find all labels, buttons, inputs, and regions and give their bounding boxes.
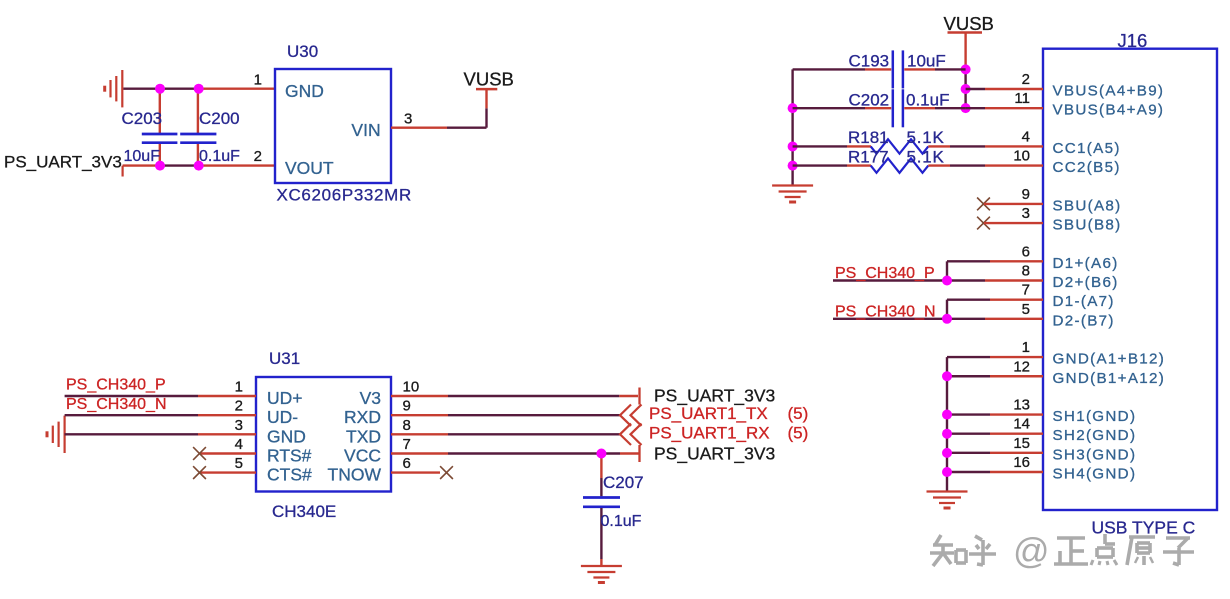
svg-text:U31: U31 [269, 349, 300, 368]
svg-text:PS_CH340_N: PS_CH340_N [835, 303, 936, 320]
svg-text:TXD: TXD [346, 426, 381, 446]
svg-text:RXD: RXD [344, 407, 381, 427]
svg-text:4: 4 [235, 436, 243, 453]
svg-text:PS_CH340_P: PS_CH340_P [66, 377, 166, 394]
svg-text:C202: C202 [849, 91, 890, 110]
svg-text:12: 12 [1013, 358, 1030, 375]
svg-text:SBU(A8): SBU(A8) [1053, 197, 1122, 214]
svg-text:3: 3 [1022, 205, 1030, 222]
svg-text:VCC: VCC [344, 446, 381, 466]
svg-text:(5): (5) [788, 404, 809, 423]
svg-text:16: 16 [1013, 454, 1030, 471]
svg-text:D1-(A7): D1-(A7) [1053, 293, 1115, 310]
svg-text:PS_UART1_RX: PS_UART1_RX [649, 423, 770, 442]
svg-text:0.1uF: 0.1uF [601, 513, 642, 530]
svg-text:C200: C200 [199, 109, 240, 128]
svg-text:CC2(B5): CC2(B5) [1053, 159, 1121, 176]
svg-text:PS_CH340_P: PS_CH340_P [835, 265, 935, 282]
svg-text:1: 1 [1022, 339, 1030, 356]
svg-text:C193: C193 [849, 52, 890, 71]
svg-text:PS_UART_3V3: PS_UART_3V3 [654, 444, 775, 465]
svg-text:VOUT: VOUT [285, 158, 334, 178]
svg-text:2: 2 [254, 148, 262, 165]
svg-text:SH4(GND): SH4(GND) [1053, 466, 1137, 483]
svg-text:9: 9 [403, 398, 411, 415]
svg-text:PS_UART_3V3: PS_UART_3V3 [4, 153, 122, 172]
svg-text:VUSB: VUSB [464, 69, 514, 90]
svg-text:TNOW: TNOW [328, 465, 382, 485]
svg-text:13: 13 [1013, 397, 1030, 414]
svg-text:D1+(A6): D1+(A6) [1053, 255, 1119, 272]
svg-text:U30: U30 [287, 42, 318, 61]
svg-text:5: 5 [1022, 301, 1030, 318]
svg-text:R177: R177 [848, 147, 889, 166]
svg-text:2: 2 [235, 398, 243, 415]
svg-text:10: 10 [403, 379, 420, 396]
svg-text:1: 1 [254, 72, 262, 89]
svg-text:CH340E: CH340E [272, 502, 336, 521]
svg-text:8: 8 [403, 417, 411, 434]
svg-text:CTS#: CTS# [267, 465, 312, 485]
svg-text:3: 3 [235, 417, 243, 434]
svg-text:2: 2 [1022, 71, 1030, 88]
svg-text:D2+(B6): D2+(B6) [1053, 274, 1119, 291]
svg-text:XC6206P332MR: XC6206P332MR [277, 185, 412, 204]
svg-text:4: 4 [1022, 128, 1030, 145]
svg-text:8: 8 [1022, 263, 1030, 280]
svg-text:SBU(B8): SBU(B8) [1053, 217, 1122, 234]
svg-text:10uF: 10uF [907, 52, 946, 71]
svg-text:7: 7 [403, 436, 411, 453]
svg-text:VBUS(A4+B9): VBUS(A4+B9) [1053, 83, 1165, 100]
svg-text:(5): (5) [788, 423, 809, 442]
svg-text:5.1K: 5.1K [907, 147, 945, 166]
svg-text:3: 3 [404, 110, 412, 127]
svg-text:SH3(GND): SH3(GND) [1053, 446, 1137, 463]
svg-text:10: 10 [1013, 148, 1030, 165]
svg-text:@: @ [1013, 530, 1050, 571]
svg-text:USB TYPE C: USB TYPE C [1092, 518, 1196, 538]
svg-text:J16: J16 [1118, 30, 1148, 51]
svg-text:GND: GND [285, 81, 324, 101]
svg-text:VBUS(B4+A9): VBUS(B4+A9) [1053, 102, 1165, 119]
svg-text:GND(A1+B12): GND(A1+B12) [1053, 351, 1166, 368]
svg-text:D2-(B7): D2-(B7) [1053, 312, 1115, 329]
svg-text:SH1(GND): SH1(GND) [1053, 408, 1137, 425]
svg-text:9: 9 [1022, 186, 1030, 203]
svg-text:10uF: 10uF [124, 148, 161, 165]
svg-text:1: 1 [235, 379, 243, 396]
svg-text:VIN: VIN [351, 120, 380, 140]
svg-text:VUSB: VUSB [944, 13, 994, 34]
svg-text:6: 6 [403, 455, 411, 472]
svg-text:14: 14 [1013, 416, 1030, 433]
svg-text:GND(B1+A12): GND(B1+A12) [1053, 370, 1166, 387]
svg-text:UD-: UD- [267, 407, 298, 427]
svg-text:5.1K: 5.1K [907, 128, 945, 147]
svg-text:C207: C207 [603, 473, 644, 492]
svg-text:GND: GND [267, 426, 306, 446]
svg-text:11: 11 [1014, 90, 1030, 107]
svg-text:0.1uF: 0.1uF [199, 148, 240, 165]
svg-text:C203: C203 [122, 109, 163, 128]
svg-text:V3: V3 [360, 388, 381, 408]
svg-text:UD+: UD+ [267, 388, 303, 408]
svg-text:7: 7 [1022, 282, 1030, 299]
svg-text:R181: R181 [848, 128, 889, 147]
svg-text:PS_CH340_N: PS_CH340_N [66, 396, 167, 413]
svg-text:SH2(GND): SH2(GND) [1053, 427, 1137, 444]
svg-text:15: 15 [1013, 435, 1030, 452]
svg-text:6: 6 [1022, 243, 1030, 260]
svg-text:PS_UART1_TX: PS_UART1_TX [649, 404, 768, 423]
svg-text:0.1uF: 0.1uF [906, 91, 949, 110]
svg-text:5: 5 [235, 455, 243, 472]
svg-text:CC1(A5): CC1(A5) [1053, 140, 1121, 157]
svg-text:RTS#: RTS# [267, 446, 312, 466]
